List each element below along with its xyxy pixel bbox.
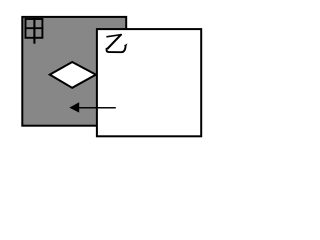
label 乙 (character drawn as strokes) (106, 34, 127, 52)
square 甲 (gray rectangle) (22, 17, 126, 126)
square 乙 (white rectangle, overlapping on top) (97, 29, 201, 136)
arrow (pointing left from white square into gray square) (69, 102, 116, 112)
diamond (white rhombus on gray square) (50, 62, 96, 88)
label 甲 (character drawn as strokes) (25, 18, 44, 44)
